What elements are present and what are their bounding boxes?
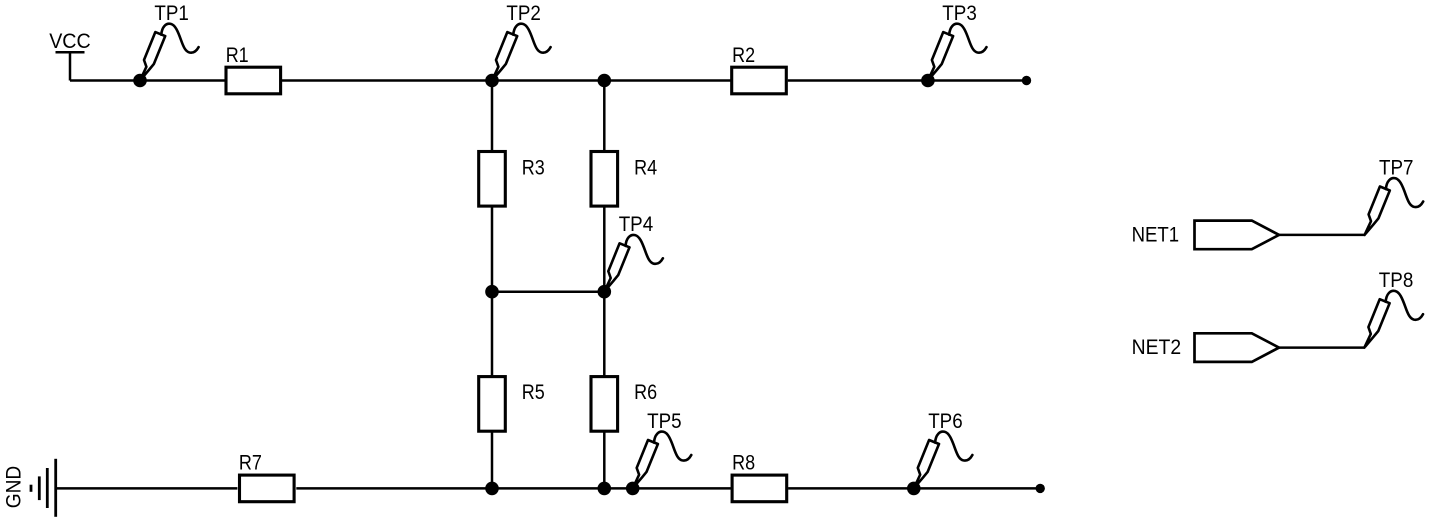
svg-text:NET1: NET1 — [1132, 224, 1180, 247]
junction top rail at TP2 — [485, 74, 499, 88]
svg-text:GND: GND — [2, 466, 25, 509]
wire NET1 to TP7 — [1279, 234, 1365, 237]
wire middle rail — [492, 290, 604, 293]
wire bottom rail — [56, 487, 1040, 490]
resistor R2 — [732, 67, 787, 94]
svg-text:TP6: TP6 — [928, 410, 963, 433]
test point TP3 — [928, 24, 987, 81]
svg-text:VCC: VCC — [49, 30, 90, 53]
resistor R7 — [239, 475, 294, 502]
test point TP2 — [492, 24, 551, 81]
junction bottom rail at TP5 — [626, 482, 640, 496]
end dot top rail — [1022, 76, 1031, 85]
svg-text:TP1: TP1 — [154, 2, 189, 25]
resistor R4 — [591, 152, 618, 207]
svg-text:TP8: TP8 — [1379, 269, 1414, 292]
resistor R5 — [479, 377, 506, 432]
svg-text:R6: R6 — [634, 381, 657, 404]
junction top rail at TP3 — [921, 74, 935, 88]
ground symbol GND — [31, 459, 56, 517]
junction middle rail left — [485, 285, 499, 299]
svg-text:TP3: TP3 — [942, 2, 977, 25]
test point TP6 — [914, 432, 973, 489]
junction bottom rail at R5 — [485, 482, 499, 496]
resistor R3 — [479, 152, 506, 207]
test point TP1 — [140, 24, 199, 81]
wire top rail — [70, 79, 1027, 82]
svg-text:TP2: TP2 — [506, 2, 541, 25]
svg-text:R4: R4 — [634, 157, 657, 180]
svg-text:R2: R2 — [732, 44, 755, 67]
junction top rail column 2 — [598, 74, 612, 88]
global label NET1 — [1195, 221, 1280, 250]
resistor R1 — [226, 67, 281, 94]
svg-text:TP5: TP5 — [647, 410, 682, 433]
test point TP8 — [1364, 291, 1423, 348]
wire NET2 to TP8 — [1279, 346, 1364, 349]
power symbol VCC — [56, 52, 85, 80]
test point TP5 — [633, 432, 692, 489]
test point TP4 — [604, 235, 663, 292]
junction bottom rail at R6 — [598, 482, 612, 496]
test point TP7 — [1365, 178, 1424, 235]
svg-text:R3: R3 — [522, 157, 545, 180]
svg-text:TP7: TP7 — [1379, 156, 1414, 179]
end dot bottom rail — [1036, 484, 1045, 493]
svg-text:TP4: TP4 — [619, 213, 654, 236]
svg-text:R5: R5 — [522, 381, 545, 404]
resistor R8 — [732, 475, 787, 502]
svg-text:R7: R7 — [239, 451, 262, 474]
svg-text:R8: R8 — [732, 451, 755, 474]
global label NET2 — [1195, 333, 1280, 362]
wire column 2 vertical — [603, 81, 606, 489]
wire column 1 vertical — [491, 81, 494, 489]
junction top rail at TP1 — [133, 74, 147, 88]
junction bottom rail at TP6 — [907, 482, 921, 496]
svg-text:NET2: NET2 — [1132, 336, 1182, 359]
junction middle rail right at TP4 — [598, 285, 612, 299]
svg-text:R1: R1 — [226, 44, 249, 67]
resistor R6 — [591, 377, 618, 432]
